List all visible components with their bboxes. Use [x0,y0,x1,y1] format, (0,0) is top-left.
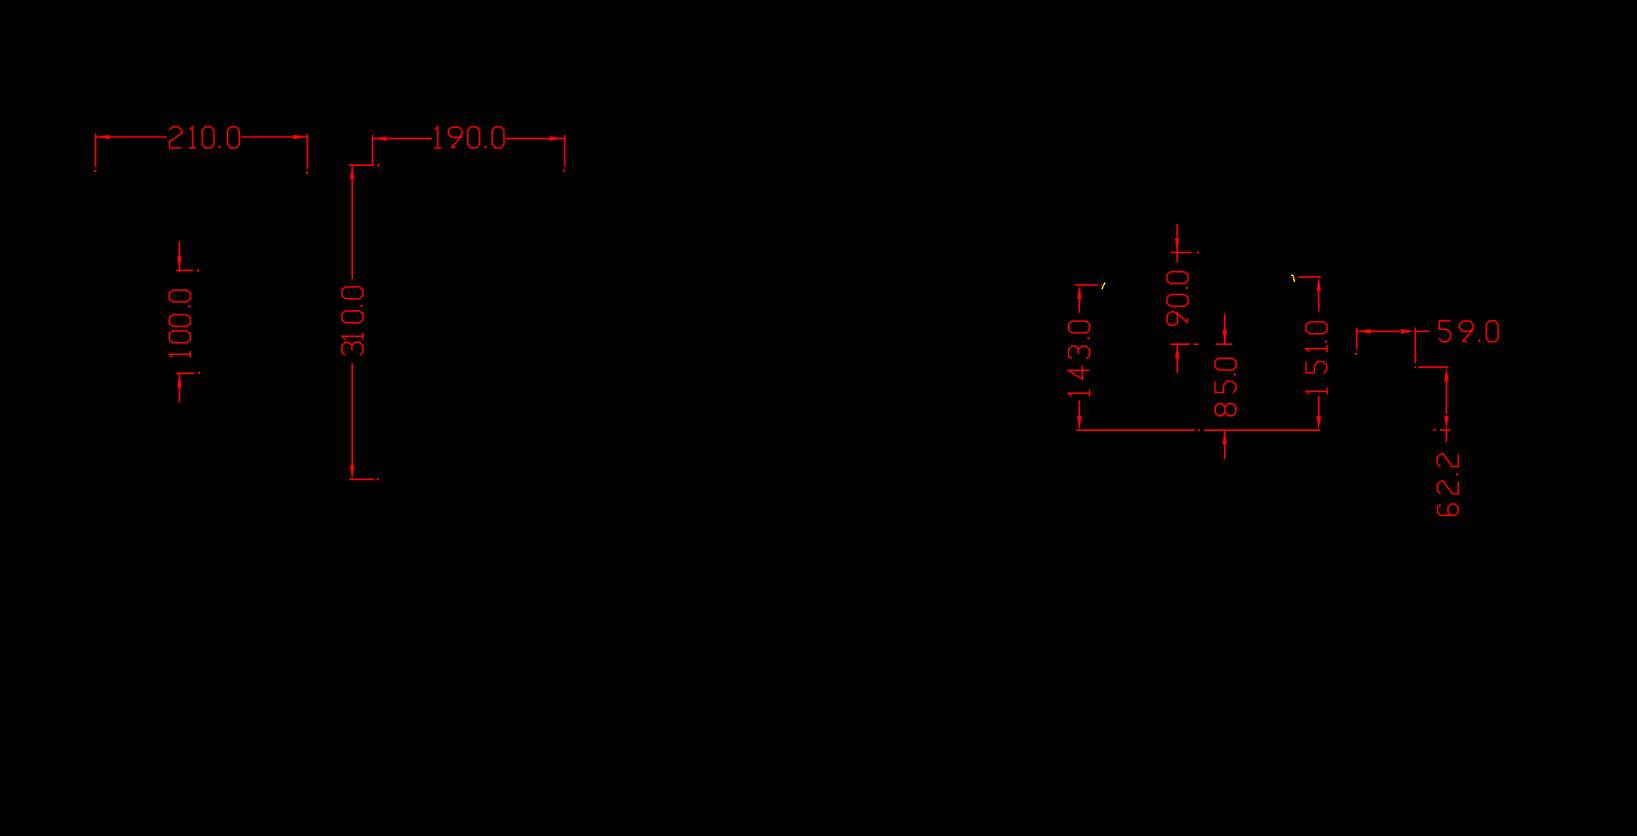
dimension 100.0 upper extension segment [178,241,180,270]
dimension 310.0 bottom arrow [350,465,355,479]
dimension 62.2 bottom tick [1434,429,1451,431]
dimension 85.0 bottom arrow [1222,430,1227,444]
dimension 210.0 right arrow [293,135,307,140]
dimension 62.2 dimension line [1445,381,1447,414]
dimension 59.0 dimension line overhang [1415,330,1430,332]
dimension 100.0 text [169,290,190,358]
dimension 143.0 bottom arrow [1077,416,1082,430]
dimension 210.0 left arrow [96,135,110,140]
feature line dash [1194,343,1200,345]
dimension 151.0 bottom arrow [1316,416,1321,430]
dimension 62.2 text [1437,454,1458,516]
dimension 310.0 top corner line [349,164,373,166]
yellow geometry corner near 143.0 [1101,283,1105,290]
dimension 85.0 text [1215,358,1236,416]
dimension 90.0 stub below top tick [1176,252,1178,262]
dimension 90.0 upper extension segment [1176,224,1178,252]
dimension 62.2 top reference line [1414,366,1448,368]
dimension 190.0 text [434,127,504,148]
dimension 100.0 top arrow [177,256,182,270]
dimension 190.0 left arrow [373,136,387,141]
dimension 151.0 top arrow [1316,277,1321,291]
dimension 143.0 dimension line upper segment [1078,299,1080,313]
dimension 190.0 extension dot [377,164,379,166]
bottom baseline left segment [1076,429,1195,431]
dimension 210.0 right extension line [306,134,308,174]
dimension 143.0 top arrow [1077,285,1082,299]
dimension 59.0 left arrow [1357,329,1371,334]
bottom baseline dot [1198,429,1200,431]
dimension 90.0 lower extension segment [1176,344,1178,373]
dimension 143.0 text [1069,321,1090,397]
dimension 59.0 text [1439,321,1498,342]
dimension 310.0 bottom tick [349,478,379,480]
bottom baseline right segment [1204,429,1321,431]
dimension 190.0 dimension line left segment [373,138,432,140]
dimension 310.0 dimension line lower segment [351,363,353,466]
dimension 190.0 right arrow [550,136,564,141]
dimension 90.0 top tick [1171,251,1199,253]
dimension 151.0 text [1306,322,1327,395]
dimension 85.0 top tick [1216,343,1233,345]
dimension 62.2 top arrow [1444,368,1449,382]
dimension 90.0 text [1167,272,1188,326]
dimension 210.0 left extension line [94,134,96,172]
dimension 310.0 dimension line upper segment [351,165,353,279]
dimension 100.0 bottom tick [176,372,200,374]
dimension 90.0 bottom arrow [1175,344,1180,358]
dimension 151.0 dimension line upper segment [1318,291,1320,312]
dimension 90.0 top arrow [1175,238,1180,252]
dimension 310.0 text [342,287,363,355]
dimension 210.0 text [169,127,239,148]
dimension 59.0 right extension line [1414,328,1416,364]
dimension 151.0 top tick [1299,276,1322,278]
dimension 100.0 lower extension segment [178,373,180,402]
dimension 59.0 left extension tick [1355,328,1357,355]
dimension 85.0 top arrow [1222,330,1227,344]
dimension 100.0 top tick [176,270,199,272]
dimension 190.0 left extension line [372,135,374,166]
dimension 190.0 dimension line right segment [506,138,564,140]
dimension 62.2 stub below tick [1445,430,1447,442]
dimension 310.0 top arrow [350,165,355,179]
dimension 143.0 top tick [1075,284,1098,286]
dimension 90.0 bottom tick [1171,343,1191,345]
dimension 62.2 bottom arrow [1444,416,1449,430]
dimension 59.0 dimension line [1357,330,1400,332]
dimension 85.0 upper extension segment [1224,314,1226,344]
dimension 190.0 right extension line [563,135,565,172]
dimension 151.0 dimension line lower segment [1318,396,1320,417]
dimension 100.0 bottom arrow [177,373,182,387]
dimension 210.0 dimension line right segment [241,136,307,138]
yellow geometry corner near 151.0 [1291,275,1295,282]
dimension 59.0 right arrow [1401,329,1415,334]
dimension 210.0 dimension line left segment [96,136,167,138]
dimension 143.0 dimension line lower segment [1078,401,1080,417]
dimension 85.0 lower extension segment [1224,430,1226,459]
